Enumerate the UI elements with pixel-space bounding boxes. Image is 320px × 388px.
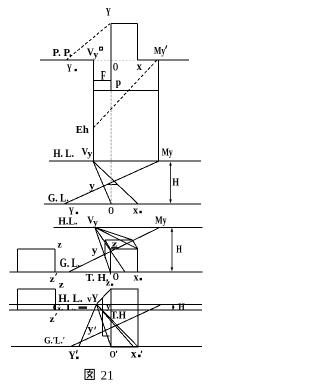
svg-text:H: H [172,177,179,188]
svg-text:z: z [50,275,56,285]
svg-text:G.′L.′: G.′L.′ [44,337,65,347]
svg-text:T.H: T.H [111,310,126,321]
svg-text:H. L.: H. L. [53,148,74,160]
svg-text:H.L.: H.L. [58,215,78,227]
svg-text:x: x [133,204,139,216]
svg-text:p: p [116,78,121,89]
svg-text:O: O [113,60,118,74]
svg-text:z: z [50,315,56,325]
svg-text:y: y [89,181,95,192]
svg-text:z: z [106,278,111,288]
svg-text:O: O [110,351,116,361]
svg-text:F: F [101,68,106,82]
svg-text:P. P.: P. P. [53,48,73,59]
svg-text:y: y [88,324,94,335]
svg-text:O: O [113,271,119,283]
svg-text:Y: Y [92,293,99,305]
svg-text:y: y [93,217,98,227]
svg-text:Y: Y [67,63,72,75]
svg-text:z: z [59,279,64,289]
svg-text:y: y [92,246,98,257]
svg-text:My: My [155,215,167,226]
svg-text:O: O [108,206,114,217]
svg-text:x: x [134,272,140,283]
svg-text:My: My [162,147,173,158]
svg-text:Y: Y [106,5,111,19]
svg-text:G. L.: G. L. [48,190,69,204]
svg-text:z: z [58,240,63,250]
svg-text:y: y [87,149,93,159]
svg-text:x: x [131,349,137,361]
svg-text:G. L.: G. L. [53,302,77,312]
svg-text:My: My [154,46,166,57]
svg-text:G. L.: G. L. [60,256,80,270]
svg-text:H: H [176,245,182,256]
svg-text:21: 21 [101,368,114,382]
svg-text:y: y [93,50,98,60]
svg-text:x: x [137,61,142,73]
svg-text:Eh: Eh [76,124,89,136]
svg-text:y: y [106,302,110,311]
svg-text:Y: Y [68,348,76,362]
svg-text:H: H [178,303,185,313]
